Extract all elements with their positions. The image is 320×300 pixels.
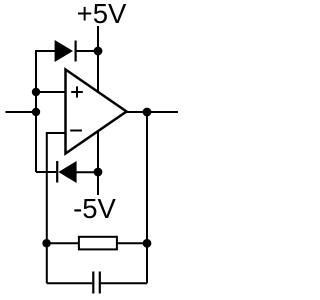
diode D1 (top, anode left, cathode to +5V) xyxy=(55,40,98,62)
op-amp U1 xyxy=(66,70,127,154)
svg-text:-5V: -5V xyxy=(73,193,116,224)
op-amp minus marker xyxy=(70,130,82,132)
diode D2 (bottom, cathode left, anode to -5V) xyxy=(57,161,98,183)
wire top diode anode wire from left rail corner xyxy=(36,51,55,172)
wire capacitor left lead xyxy=(47,282,92,284)
resistor R1 xyxy=(79,237,117,250)
wire resistor right lead xyxy=(117,242,147,244)
wire output feedback vertical xyxy=(146,112,148,283)
node junction dot feedback right xyxy=(143,239,152,248)
wire input stub from left edge xyxy=(6,111,37,113)
wire bottom clamp wire from left rail to diode cathode xyxy=(36,171,56,173)
svg-text:+5V: +5V xyxy=(77,0,127,29)
capacitor C1 xyxy=(93,272,100,294)
node junction dot feedback left xyxy=(42,239,51,248)
wire -5V rail from op-amp bottom edge xyxy=(97,131,99,195)
wire inverting input wire and feedback vertical xyxy=(47,133,65,283)
op-amp plus marker xyxy=(71,91,83,93)
node junction dot at non-inverting tap xyxy=(32,88,40,96)
node junction dot at input stub xyxy=(32,108,40,116)
node junction dot at output xyxy=(143,108,152,117)
wire non-inverting input wire xyxy=(36,91,65,93)
node junction dot at -5V rail / diode anode xyxy=(94,168,103,177)
wire capacitor right lead xyxy=(101,282,147,284)
wire +5V rail down to op-amp top edge xyxy=(97,26,99,93)
wire output wire xyxy=(127,111,179,113)
wire resistor left lead xyxy=(47,242,78,244)
node junction dot at +5V rail / diode cathode xyxy=(94,47,103,56)
